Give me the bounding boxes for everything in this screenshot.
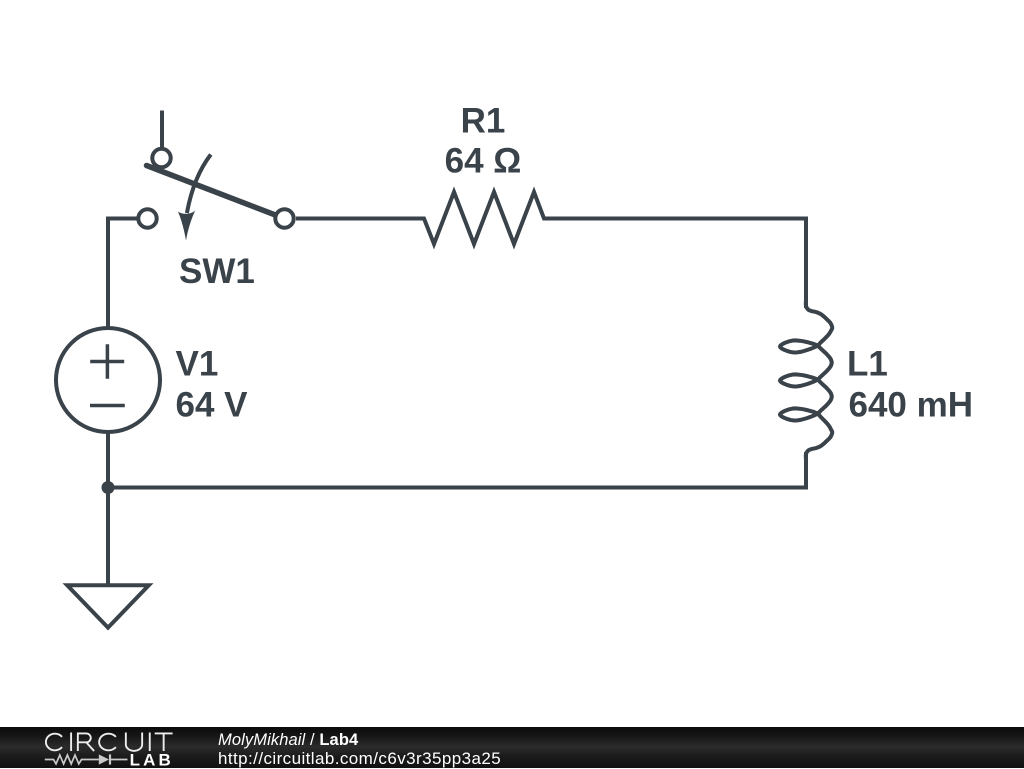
svg-text:R1: R1 — [461, 102, 506, 141]
svg-text:L1: L1 — [847, 345, 888, 384]
svg-text:640 mH: 640 mH — [849, 386, 974, 425]
svg-text:V1: V1 — [176, 345, 219, 384]
svg-text:SW1: SW1 — [179, 252, 255, 291]
svg-text:LAB: LAB — [130, 751, 174, 769]
svg-text:64 V: 64 V — [176, 386, 249, 425]
svg-text:64 Ω: 64 Ω — [445, 142, 522, 181]
